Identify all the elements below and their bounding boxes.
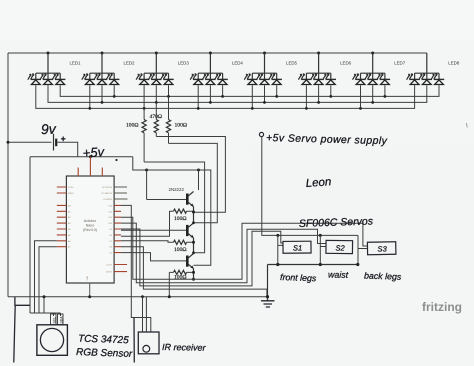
svg-text:LED2: LED2 bbox=[124, 61, 136, 66]
Arduino bottom GND pin bbox=[89, 283, 91, 297]
hand bracket mark bbox=[14, 305, 30, 362]
svg-text:front legs: front legs bbox=[280, 272, 317, 283]
wire: +5V rail bbox=[30, 156, 133, 158]
resistor R6 100 ohm base bbox=[168, 270, 195, 298]
node bus junction dots bbox=[88, 95, 386, 110]
LED5 bbox=[244, 53, 297, 85]
wire: cathode bus top (blue channel) bbox=[60, 85, 439, 96]
svg-text:Arduino: Arduino bbox=[84, 219, 96, 223]
wire: cathode bus middle (green channel) bbox=[48, 85, 427, 102]
ground symbol bbox=[262, 301, 275, 307]
wire: rail to ground bbox=[267, 265, 269, 301]
wire: cathode bus bottom (red channel) bbox=[36, 85, 415, 108]
stray pen dot bbox=[115, 159, 117, 161]
svg-text:GND: GND bbox=[87, 275, 89, 280]
wire: ground bus horizontal bottom bbox=[8, 296, 268, 298]
svg-text:RO/WSR: RO/WSR bbox=[103, 199, 112, 201]
svg-text:RC.AMP1F: RC.AMP1F bbox=[101, 192, 112, 195]
wire: TCS SDA from A4 bbox=[35, 241, 57, 313]
svg-text:S3: S3 bbox=[377, 244, 387, 253]
LED3 bbox=[136, 53, 189, 85]
svg-text:100Ω: 100Ω bbox=[174, 247, 187, 253]
wire: +5V drop to collector rail bbox=[133, 157, 211, 266]
transistor Q3 2N2222 bbox=[121, 251, 195, 280]
svg-text:SDA: SDA bbox=[59, 316, 63, 324]
transistor Q2 2N2222 bbox=[121, 221, 195, 252]
wire: servo +5V feeds bbox=[278, 235, 283, 264]
resistor R4 100 ohm base bbox=[121, 209, 195, 236]
svg-text:RC/TX1R0: RC/TX1R0 bbox=[102, 187, 113, 189]
Arduino left pins bbox=[57, 187, 75, 249]
svg-text:+5v: +5v bbox=[82, 144, 106, 161]
svg-text:LED1: LED1 bbox=[70, 61, 82, 66]
scan artifacts bbox=[466, 123, 469, 128]
svg-text:S2: S2 bbox=[335, 243, 345, 252]
wire: ground return to servo rail bbox=[121, 247, 267, 297]
LED2 bbox=[82, 53, 135, 85]
LED7 bbox=[353, 53, 406, 85]
wire: servo signal 2 (D3) to S2 bbox=[121, 223, 326, 283]
wire: left outer vertical bbox=[7, 53, 9, 297]
svg-text:LED7: LED7 bbox=[394, 61, 406, 66]
TCS34725 RGB sensor body bbox=[37, 325, 68, 356]
wire: top +9V rail bbox=[8, 52, 427, 54]
wire: servo signal 1 (D2) to S3 bbox=[121, 217, 368, 279]
wire: R3 bottom to T2 collector ladder bbox=[169, 143, 218, 222]
Arduino top pins bbox=[78, 157, 102, 176]
svg-text:D1/TX: D1/TX bbox=[106, 265, 113, 267]
svg-text:Leon: Leon bbox=[305, 176, 331, 190]
svg-text:D0/RX: D0/RX bbox=[106, 272, 113, 274]
svg-text:100Ω: 100Ω bbox=[126, 123, 139, 129]
svg-text:waist: waist bbox=[328, 270, 349, 280]
wire: TCS ground feed bbox=[43, 297, 45, 313]
svg-text:100Ω: 100Ω bbox=[174, 216, 187, 222]
node +5V servo supply bbox=[259, 132, 263, 136]
svg-text:LED8: LED8 bbox=[448, 61, 460, 66]
svg-text:TCS 34725: TCS 34725 bbox=[78, 334, 129, 347]
svg-text:470Ω: 470Ω bbox=[150, 114, 163, 120]
LED8 bbox=[407, 53, 460, 85]
svg-text:LED5: LED5 bbox=[286, 61, 298, 66]
transistor Q1 2N2222 bbox=[147, 170, 199, 223]
svg-text:back legs: back legs bbox=[364, 271, 402, 282]
LED6 bbox=[298, 53, 351, 85]
svg-text:Nano: Nano bbox=[86, 224, 95, 228]
resistor R2 470 ohm (green) bbox=[150, 102, 163, 136]
servo S2 bbox=[326, 240, 353, 253]
wire: TCS sensor 5V feed bbox=[29, 157, 31, 313]
wire: R2 bottom to T1 collector ladder bbox=[156, 137, 225, 213]
node rail junctions bbox=[47, 52, 50, 55]
resistor R5 100 ohm base bbox=[121, 240, 195, 253]
wire: servo +5V drop bbox=[262, 137, 358, 236]
svg-text:LED4: LED4 bbox=[232, 61, 244, 66]
hand stroke near IR bbox=[133, 318, 135, 362]
wire: T1 base feed bbox=[146, 170, 148, 200]
svg-text:2N2222: 2N2222 bbox=[169, 187, 185, 192]
svg-text:100Ω: 100Ω bbox=[175, 123, 188, 129]
wire: IR receiver signal bbox=[121, 205, 151, 332]
svg-text:(Rev3.0): (Rev3.0) bbox=[83, 228, 97, 232]
wire: servo signal 3 (D4) to S1 bbox=[121, 229, 283, 286]
resistor R1 100 ohm (red) bbox=[126, 108, 146, 162]
servo S1 bbox=[283, 241, 311, 253]
resistor R3 100 ohm (blue) bbox=[166, 96, 187, 143]
Arduino Nano U1 bbox=[66, 176, 114, 283]
TCS34725 connector SCL/SDA bbox=[51, 314, 64, 325]
wire: servo ground rail bbox=[268, 264, 359, 266]
servo S3 bbox=[367, 242, 396, 255]
svg-text:LED3: LED3 bbox=[178, 61, 190, 66]
svg-text:LED6: LED6 bbox=[340, 61, 352, 66]
LED1 bbox=[28, 53, 81, 85]
wire: TCS SCL from A5 bbox=[39, 247, 57, 313]
battery 9V bbox=[7, 134, 78, 157]
Arduino right pins bbox=[101, 187, 127, 274]
svg-text:fritzing: fritzing bbox=[422, 300, 462, 314]
wire: IR receiver feeds bbox=[143, 297, 147, 332]
svg-text:RGB Sensor: RGB Sensor bbox=[76, 347, 133, 360]
svg-text:SCK0: SCK0 bbox=[68, 187, 74, 189]
svg-text:SCL: SCL bbox=[52, 317, 56, 324]
svg-text:IR receiver: IR receiver bbox=[162, 342, 207, 353]
svg-text:S1: S1 bbox=[293, 243, 302, 252]
svg-text:MRE1: MRE1 bbox=[68, 193, 75, 195]
wire: R1 bottom to T3 collector ladder bbox=[144, 162, 205, 253]
svg-text:9v: 9v bbox=[41, 121, 57, 138]
wire: sensor header jog bbox=[30, 313, 61, 316]
IR receiver body bbox=[138, 332, 159, 354]
LED4 bbox=[190, 53, 243, 85]
wire: LED cathode drops to buses bbox=[90, 85, 385, 108]
